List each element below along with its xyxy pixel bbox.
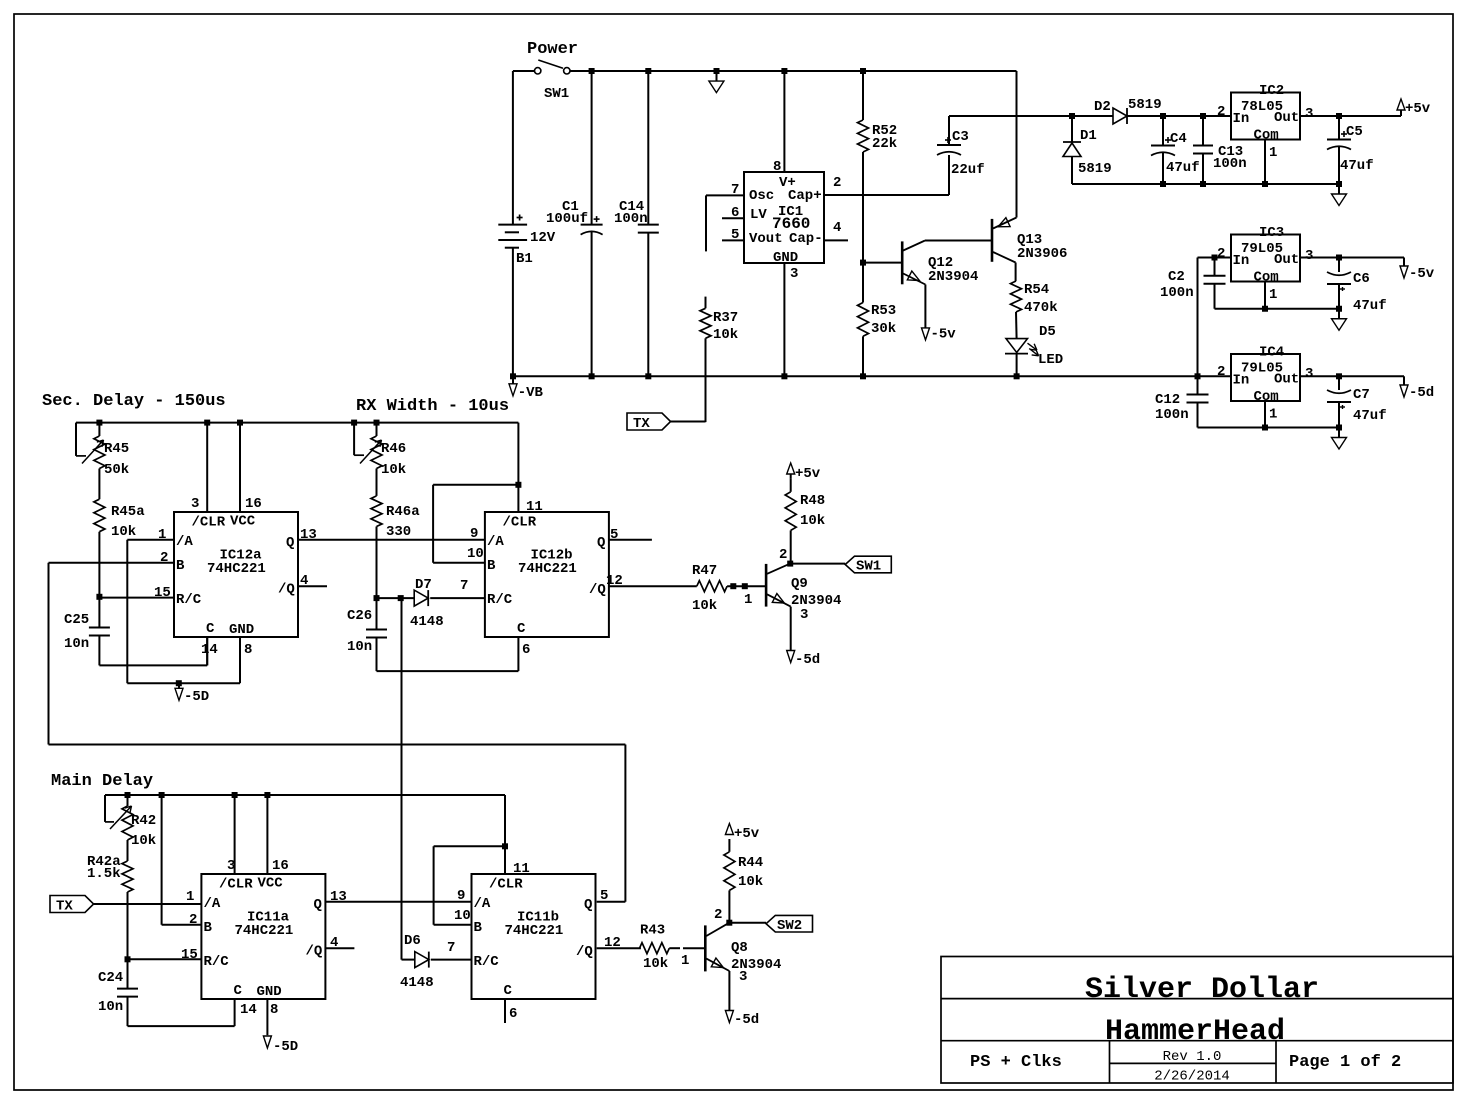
svg-text:16: 16: [272, 858, 289, 874]
svg-text:TX: TX: [56, 899, 73, 915]
svg-text:74HC221: 74HC221: [207, 561, 266, 577]
capacitor C3: [937, 116, 985, 195]
IC U3b 74HC221 (IC11b): [434, 846, 641, 1023]
trimpot R45 50k: [76, 423, 129, 478]
svg-text:10k: 10k: [381, 462, 406, 478]
svg-text:R48: R48: [800, 493, 825, 509]
title RX Width - 10us: [356, 397, 509, 416]
svg-text:15: 15: [154, 585, 171, 601]
svg-text:R45a: R45a: [111, 504, 145, 520]
svg-text:IC2: IC2: [1259, 83, 1284, 99]
svg-text:R53: R53: [871, 303, 896, 319]
svg-text:10: 10: [454, 908, 471, 924]
power net +5v tag (R48): [787, 463, 821, 482]
svg-text:D1: D1: [1080, 128, 1097, 144]
svg-text:Out: Out: [1274, 110, 1299, 126]
svg-text:/Q: /Q: [589, 582, 606, 598]
ground symbol on top rail: [709, 71, 724, 93]
wire VCC rail Sec.Delay / RX Width: [76, 420, 521, 512]
svg-text:D5: D5: [1039, 324, 1056, 340]
svg-text:12V: 12V: [530, 230, 556, 246]
svg-text:VCC: VCC: [258, 876, 284, 892]
svg-text:50k: 50k: [104, 462, 129, 478]
svg-text:PS + Clks: PS + Clks: [970, 1053, 1062, 1072]
svg-text:LED: LED: [1038, 352, 1063, 368]
svg-text:SW2: SW2: [777, 918, 802, 934]
svg-text:74HC221: 74HC221: [235, 923, 294, 939]
svg-text:R46: R46: [381, 441, 406, 457]
LED D5: [1005, 324, 1063, 376]
svg-text:10k: 10k: [131, 833, 156, 849]
svg-text:15: 15: [181, 947, 198, 963]
wire Q12 collector to Q13 base: [925, 240, 991, 242]
svg-text:Page 1 of 2: Page 1 of 2: [1289, 1053, 1401, 1072]
wire -VB to IC3 input: [1198, 255, 1232, 377]
resistor R52: [858, 71, 898, 152]
svg-text:-5d: -5d: [1409, 385, 1434, 401]
svg-text:Q9: Q9: [791, 576, 808, 592]
svg-text:10k: 10k: [643, 956, 668, 972]
svg-text:9: 9: [470, 526, 478, 542]
IC U2b 74HC221 (IC12b): [433, 485, 697, 658]
svg-text:Silver Dollar: Silver Dollar: [1085, 973, 1319, 1007]
capacitor C2: [1160, 258, 1226, 309]
diode D6 4148: [400, 598, 472, 991]
diode D7 4148: [377, 577, 485, 630]
svg-text:In: In: [1233, 111, 1250, 127]
capacitor C26: [347, 595, 518, 671]
svg-text:GND: GND: [257, 984, 282, 1000]
battery B1: [498, 71, 556, 376]
regulator IC2 78L05: [1217, 83, 1313, 184]
svg-text:10k: 10k: [692, 598, 717, 614]
svg-text:8: 8: [773, 159, 781, 175]
svg-text:7: 7: [731, 182, 739, 198]
wire GND top rail: [570, 68, 1017, 74]
svg-text:/CLR: /CLR: [192, 515, 226, 531]
power net +5v tag (R44): [725, 824, 759, 843]
svg-text:Q: Q: [286, 535, 294, 551]
svg-text:100uf: 100uf: [546, 211, 588, 227]
svg-text:+5v: +5v: [1405, 101, 1431, 117]
svg-text:/CLR: /CLR: [489, 877, 523, 893]
svg-text:GND: GND: [773, 250, 798, 266]
svg-text:-5v: -5v: [1409, 266, 1435, 282]
title text HammerHead: [1105, 1015, 1285, 1049]
wire IC3 output -5v: [1300, 255, 1404, 261]
svg-text:10k: 10k: [800, 513, 825, 529]
svg-text:B: B: [204, 920, 213, 936]
svg-text:D6: D6: [404, 933, 421, 949]
regulator IC4 79L05: [1217, 345, 1313, 428]
transistor Q8 2N3904: [705, 907, 781, 985]
trimpot R42 10k: [105, 795, 156, 849]
svg-text:22uf: 22uf: [951, 162, 985, 178]
title Main Delay: [51, 772, 153, 791]
resistor R43 10k: [640, 923, 706, 973]
svg-text:Q8: Q8: [731, 940, 748, 956]
wire C3 to D1/D2 node: [949, 113, 1113, 119]
svg-text:/CLR: /CLR: [219, 877, 253, 893]
svg-text:1: 1: [158, 527, 166, 543]
power net -5d tag (Q9): [787, 607, 821, 668]
svg-text:C: C: [517, 621, 526, 637]
svg-text:10n: 10n: [64, 636, 89, 652]
svg-text:Com: Com: [1254, 128, 1279, 144]
svg-text:3: 3: [1305, 366, 1313, 382]
svg-text:SW1: SW1: [544, 86, 569, 102]
node SW1 flag: [790, 556, 891, 574]
svg-text:R47: R47: [692, 563, 717, 579]
power net -5d tag (IC4): [1400, 376, 1434, 401]
svg-text:14: 14: [201, 642, 218, 658]
svg-text:4: 4: [833, 220, 841, 236]
svg-text:B1: B1: [516, 251, 533, 267]
svg-text:2N3904: 2N3904: [791, 593, 841, 609]
svg-text:+5v: +5v: [734, 826, 760, 842]
resistor R48 10k: [785, 479, 825, 567]
svg-text:Osc: Osc: [749, 188, 774, 204]
svg-text:R46a: R46a: [386, 504, 420, 520]
svg-text:-5D: -5D: [273, 1039, 298, 1055]
svg-text:2N3906: 2N3906: [1017, 246, 1067, 262]
svg-text:2: 2: [714, 907, 722, 923]
svg-text:4148: 4148: [410, 614, 444, 630]
svg-text:2/26/2014: 2/26/2014: [1154, 1069, 1230, 1085]
svg-text:IC3: IC3: [1259, 225, 1284, 241]
svg-text:R45: R45: [104, 441, 129, 457]
title text Page 1 of 2: [1289, 1053, 1401, 1072]
svg-text:RX Width - 10us: RX Width - 10us: [356, 397, 509, 416]
regulator IC3 79L05: [1217, 225, 1313, 309]
resistor R45a 10k: [94, 469, 145, 597]
trimpot R46 10k: [354, 423, 406, 478]
svg-text:C3: C3: [952, 129, 969, 145]
svg-text:12: 12: [606, 573, 623, 589]
svg-text:Out: Out: [1274, 372, 1299, 388]
svg-text:Cap-: Cap-: [789, 231, 823, 247]
svg-text:HammerHead: HammerHead: [1105, 1015, 1285, 1049]
svg-text:Vout: Vout: [749, 231, 783, 247]
power net -5D tag (IC11a): [263, 1036, 298, 1055]
svg-text:3: 3: [1305, 106, 1313, 122]
svg-text:12: 12: [604, 935, 621, 951]
svg-text:B: B: [487, 558, 496, 574]
svg-text:D2: D2: [1094, 99, 1111, 115]
capacitor C5: [1327, 116, 1374, 184]
svg-text:22k: 22k: [872, 136, 897, 152]
svg-text:/Q: /Q: [576, 944, 593, 960]
svg-text:8: 8: [244, 642, 252, 658]
wire VCC rail Main Delay: [105, 792, 508, 874]
capacitor C7: [1327, 376, 1387, 427]
svg-text:11: 11: [526, 499, 543, 515]
svg-text:Sec. Delay - 150us: Sec. Delay - 150us: [42, 392, 226, 411]
wire IC2 output +5v: [1300, 113, 1401, 119]
node SW2 flag: [729, 915, 812, 934]
svg-text:1: 1: [1269, 145, 1277, 161]
svg-text:2: 2: [189, 912, 197, 928]
svg-text:6: 6: [731, 205, 739, 221]
svg-text:7: 7: [460, 578, 468, 594]
svg-text:-5d: -5d: [795, 652, 820, 668]
svg-text:C2: C2: [1168, 269, 1185, 285]
svg-text:13: 13: [300, 527, 317, 543]
svg-text:100n: 100n: [1155, 407, 1189, 423]
svg-text:C4: C4: [1170, 131, 1187, 147]
svg-text:R/C: R/C: [474, 954, 500, 970]
svg-text:/Q: /Q: [306, 944, 323, 960]
title text PS + Clks: [970, 1053, 1062, 1072]
svg-text:13: 13: [330, 889, 347, 905]
svg-text:5819: 5819: [1128, 97, 1162, 113]
svg-text:4: 4: [300, 573, 308, 589]
capacitor C14: [614, 71, 659, 376]
diode D1 5819: [1063, 116, 1112, 184]
svg-text:Main Delay: Main Delay: [51, 772, 153, 791]
ground symbol below C7: [1332, 428, 1347, 450]
svg-text:2: 2: [1217, 364, 1225, 380]
svg-text:TX: TX: [633, 416, 650, 432]
svg-text:10k: 10k: [738, 874, 763, 890]
svg-text:3: 3: [227, 858, 235, 874]
svg-text:1: 1: [744, 592, 752, 608]
svg-text:5: 5: [610, 527, 618, 543]
svg-text:16: 16: [245, 496, 262, 512]
svg-text:/A: /A: [487, 534, 504, 550]
svg-text:C: C: [206, 621, 215, 637]
title text date: [1154, 1069, 1230, 1085]
svg-text:R43: R43: [640, 923, 665, 939]
svg-text:14: 14: [240, 1002, 257, 1018]
power net -5v tag (Q12 emitter): [922, 327, 957, 343]
svg-text:C5: C5: [1346, 124, 1363, 140]
svg-text:100n: 100n: [1213, 156, 1247, 172]
svg-text:1: 1: [1269, 287, 1277, 303]
svg-text:C: C: [504, 983, 513, 999]
svg-text:8: 8: [270, 1002, 278, 1018]
svg-text:-5D: -5D: [184, 689, 209, 705]
svg-text:/A: /A: [204, 896, 221, 912]
svg-text:Com: Com: [1254, 389, 1279, 405]
svg-text:47uf: 47uf: [1340, 158, 1374, 174]
svg-text:Q: Q: [597, 535, 605, 551]
svg-text:C12: C12: [1155, 392, 1180, 408]
svg-text:3: 3: [800, 607, 808, 623]
svg-text:Q: Q: [584, 897, 592, 913]
svg-text:C26: C26: [347, 608, 372, 624]
wire IC3 bottom rail: [1215, 306, 1343, 312]
svg-text:B: B: [176, 558, 185, 574]
svg-text:C7: C7: [1353, 387, 1370, 403]
svg-text:10k: 10k: [713, 327, 738, 343]
capacitor C24: [98, 956, 235, 1026]
svg-text:1: 1: [681, 953, 689, 969]
node TX flag (main delay): [50, 896, 201, 915]
svg-text:3: 3: [790, 266, 798, 282]
transistor Q12 2N3904: [863, 241, 978, 328]
svg-text:VCC: VCC: [230, 514, 256, 530]
svg-text:47uf: 47uf: [1166, 160, 1200, 176]
resistor R53: [858, 152, 897, 376]
svg-text:In: In: [1233, 373, 1250, 389]
svg-text:/A: /A: [474, 896, 491, 912]
svg-text:C: C: [234, 983, 243, 999]
svg-text:4: 4: [330, 935, 338, 951]
IC U2a 74HC221 (IC12a): [49, 423, 485, 687]
capacitor C12: [1155, 376, 1209, 427]
svg-text:In: In: [1233, 253, 1250, 269]
svg-text:1.5k: 1.5k: [87, 866, 121, 882]
svg-text:C24: C24: [98, 970, 123, 986]
wire IC12a pin2 to IC11b Q: [49, 563, 626, 902]
svg-text:3: 3: [1305, 248, 1313, 264]
capacitor C6: [1327, 258, 1387, 315]
svg-text:10n: 10n: [98, 999, 123, 1015]
svg-text:47uf: 47uf: [1353, 298, 1387, 314]
svg-text:+5v: +5v: [795, 466, 821, 482]
title text Rev 1.0: [1163, 1049, 1222, 1065]
svg-text:100n: 100n: [614, 211, 648, 227]
svg-text:6: 6: [522, 642, 530, 658]
svg-text:R/C: R/C: [487, 592, 513, 608]
svg-text:1: 1: [186, 889, 194, 905]
title Power: [527, 40, 578, 59]
title block: [941, 957, 1453, 1084]
svg-text:/CLR: /CLR: [503, 515, 537, 531]
node TX flag (power): [627, 413, 706, 432]
ground symbol below C5: [1332, 184, 1347, 206]
svg-text:4148: 4148: [400, 975, 434, 991]
svg-text:LV: LV: [750, 207, 767, 223]
ground symbol below C6: [1332, 309, 1347, 331]
svg-text:74HC221: 74HC221: [518, 561, 577, 577]
svg-text:2N3904: 2N3904: [731, 957, 781, 973]
svg-text:10k: 10k: [111, 524, 136, 540]
title Sec. Delay - 150us: [42, 392, 226, 411]
svg-text:SW1: SW1: [856, 559, 881, 575]
svg-text:Rev 1.0: Rev 1.0: [1163, 1049, 1222, 1065]
svg-text:3: 3: [191, 496, 199, 512]
svg-text:11: 11: [513, 861, 530, 877]
resistor R54: [1011, 281, 1058, 339]
svg-text:R44: R44: [738, 855, 763, 871]
svg-text:Cap+: Cap+: [788, 188, 822, 204]
capacitor C13: [1193, 116, 1247, 184]
svg-text:B: B: [474, 920, 483, 936]
wire -VB bottom rail: [510, 373, 1201, 379]
svg-text:470k: 470k: [1024, 300, 1058, 316]
svg-text:C25: C25: [64, 612, 89, 628]
capacitor C25: [64, 594, 207, 666]
svg-text:Com: Com: [1254, 270, 1279, 286]
transistor Q9 2N3904: [766, 547, 841, 623]
svg-text:-5d: -5d: [734, 1012, 759, 1028]
svg-text:IC4: IC4: [1259, 345, 1284, 361]
power net +5v tag (IC2): [1397, 99, 1431, 117]
resistor R44 10k: [724, 839, 763, 926]
svg-text:Power: Power: [527, 40, 578, 59]
power net -5v tag (IC3): [1400, 258, 1435, 283]
switch SW1: [513, 60, 570, 102]
svg-text:/A: /A: [176, 534, 193, 550]
svg-text:6: 6: [509, 1006, 517, 1022]
resistor R42a 1.5k: [87, 840, 133, 959]
svg-text:R/C: R/C: [176, 592, 202, 608]
svg-text:2: 2: [1217, 104, 1225, 120]
resistor R46a 330: [371, 469, 420, 599]
svg-text:5819: 5819: [1078, 161, 1112, 177]
svg-text:R37: R37: [713, 310, 738, 326]
power net -VB tag: [509, 376, 544, 401]
svg-text:7: 7: [447, 940, 455, 956]
IC U1 7660 charge pump: [706, 71, 949, 376]
svg-text:R/C: R/C: [204, 954, 230, 970]
svg-text:74HC221: 74HC221: [505, 923, 564, 939]
transistor Q13 2N3906: [992, 71, 1067, 281]
svg-text:D7: D7: [415, 577, 432, 593]
wire IC4 bottom rail: [1198, 425, 1343, 431]
capacitor C1: [546, 71, 603, 376]
svg-text:30k: 30k: [871, 321, 896, 337]
svg-text:-5v: -5v: [931, 327, 957, 343]
svg-text:2: 2: [833, 175, 841, 191]
title text Silver Dollar: [1085, 973, 1319, 1007]
svg-text:R54: R54: [1024, 282, 1049, 298]
IC U3a 74HC221 (IC11a): [128, 795, 472, 1035]
wire IC4 output -5d: [1300, 373, 1404, 379]
wire regulator IC2 ground rail: [1072, 181, 1342, 187]
svg-text:100n: 100n: [1160, 285, 1194, 301]
svg-text:5: 5: [600, 888, 608, 904]
svg-text:47uf: 47uf: [1353, 408, 1387, 424]
svg-text:1: 1: [1269, 407, 1277, 423]
resistor R47 10k: [692, 563, 766, 614]
svg-text:/Q: /Q: [278, 582, 295, 598]
svg-text:C6: C6: [1353, 271, 1370, 287]
svg-text:Out: Out: [1274, 252, 1299, 268]
svg-text:10n: 10n: [347, 639, 372, 655]
svg-text:2: 2: [779, 547, 787, 563]
diode D2 5819: [1094, 97, 1231, 124]
svg-text:R42: R42: [131, 813, 156, 829]
svg-text:Q: Q: [314, 897, 322, 913]
svg-text:2: 2: [1217, 246, 1225, 262]
svg-text:5: 5: [731, 227, 739, 243]
svg-text:2: 2: [160, 550, 168, 566]
svg-text:GND: GND: [229, 622, 254, 638]
svg-text:-VB: -VB: [518, 385, 544, 401]
svg-text:10: 10: [467, 546, 484, 562]
power net -5d tag (Q8): [725, 971, 759, 1028]
svg-text:2N3904: 2N3904: [928, 269, 978, 285]
resistor R37: [700, 297, 738, 423]
power net -5D tag (IC12a): [175, 683, 209, 705]
wire -VB to IC4 input: [1198, 375, 1232, 377]
svg-text:9: 9: [457, 888, 465, 904]
svg-text:330: 330: [386, 524, 411, 540]
capacitor C4: [1151, 116, 1200, 184]
